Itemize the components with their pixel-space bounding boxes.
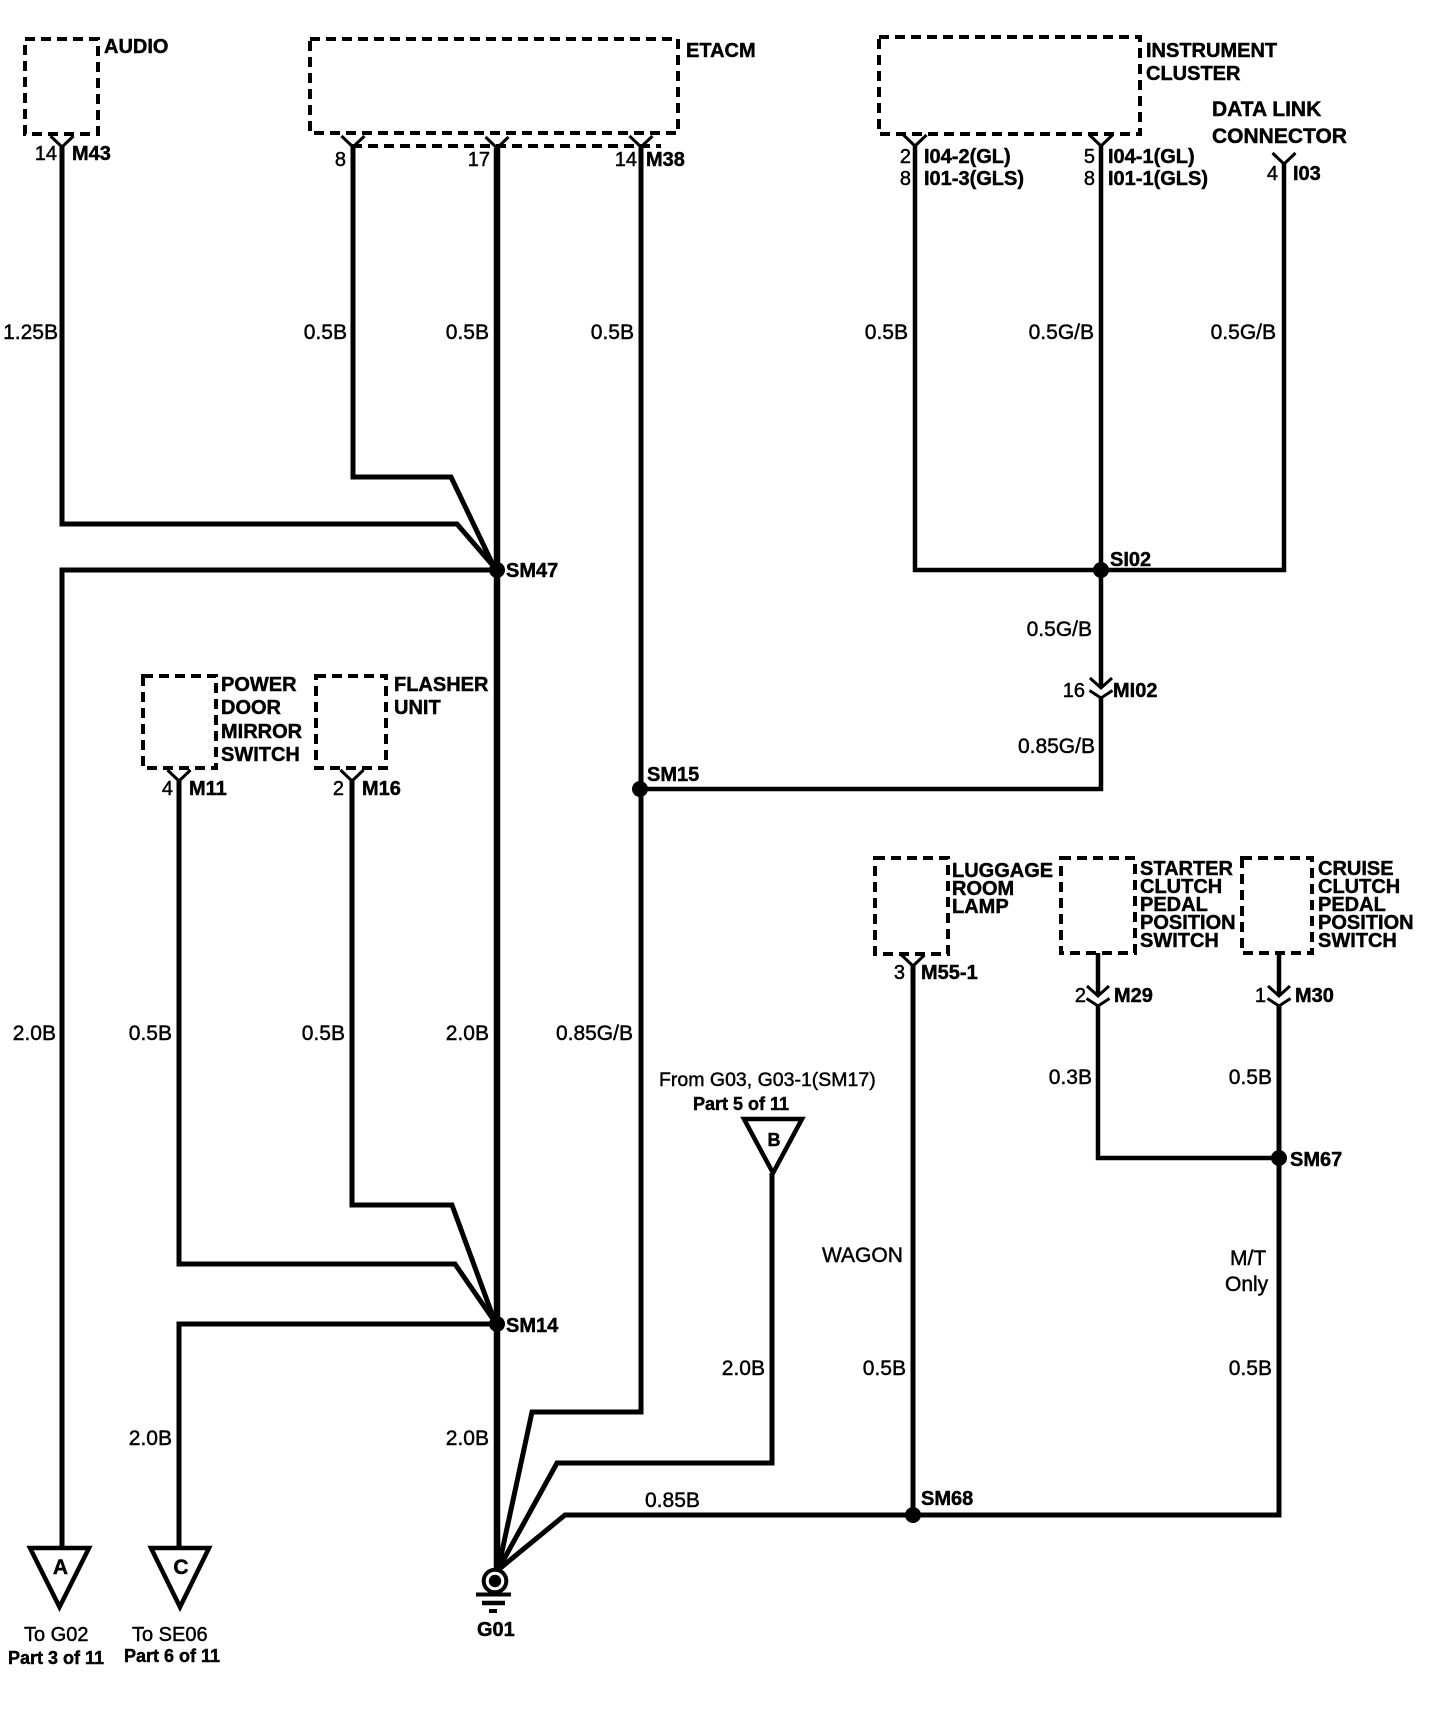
svg-text:SM15: SM15: [647, 764, 699, 786]
svg-text:8: 8: [335, 149, 346, 171]
svg-text:2.0B: 2.0B: [446, 1022, 489, 1045]
svg-text:0.5B: 0.5B: [865, 321, 908, 344]
svg-text:INSTRUMENT: INSTRUMENT: [1146, 40, 1277, 62]
svg-text:4: 4: [162, 778, 173, 800]
svg-text:0.5B: 0.5B: [304, 321, 347, 344]
svg-text:SWITCH: SWITCH: [221, 744, 300, 766]
svg-text:2: 2: [1075, 985, 1086, 1007]
svg-text:2.0B: 2.0B: [722, 1357, 765, 1380]
svg-text:1.25B: 1.25B: [3, 321, 58, 344]
svg-text:0.5B: 0.5B: [129, 1022, 172, 1045]
svg-text:SM68: SM68: [921, 1488, 973, 1510]
svg-text:Part 6 of 11: Part 6 of 11: [124, 1646, 220, 1666]
svg-text:I04-1(GL): I04-1(GL): [1108, 146, 1195, 168]
svg-text:ETACM: ETACM: [686, 40, 756, 62]
svg-text:2.0B: 2.0B: [446, 1427, 489, 1450]
svg-text:To G02: To G02: [24, 1624, 88, 1646]
svg-text:0.5B: 0.5B: [1229, 1066, 1272, 1089]
svg-text:0.85G/B: 0.85G/B: [1018, 735, 1095, 758]
svg-text:0.5G/B: 0.5G/B: [1027, 618, 1092, 641]
svg-text:DATA LINK: DATA LINK: [1212, 98, 1321, 121]
svg-text:I01-3(GLS): I01-3(GLS): [924, 168, 1024, 190]
svg-text:CLUSTER: CLUSTER: [1146, 63, 1241, 85]
svg-text:CONNECTOR: CONNECTOR: [1212, 125, 1347, 148]
svg-text:5: 5: [1084, 146, 1095, 168]
svg-text:1: 1: [1255, 985, 1266, 1007]
svg-text:2.0B: 2.0B: [13, 1022, 56, 1045]
svg-text:To SE06: To SE06: [132, 1624, 208, 1646]
svg-text:M55-1: M55-1: [921, 962, 978, 984]
svg-text:8: 8: [900, 168, 911, 190]
svg-text:M38: M38: [646, 149, 685, 171]
svg-text:M/T: M/T: [1230, 1247, 1266, 1270]
svg-text:17: 17: [468, 149, 490, 171]
svg-text:0.5B: 0.5B: [302, 1022, 345, 1045]
svg-text:FLASHER: FLASHER: [394, 674, 489, 696]
svg-text:14: 14: [615, 149, 637, 171]
svg-text:POWER: POWER: [221, 674, 297, 696]
svg-text:G01: G01: [477, 1619, 515, 1641]
svg-text:I03: I03: [1293, 163, 1321, 185]
svg-text:C: C: [173, 1556, 188, 1579]
svg-text:0.5G/B: 0.5G/B: [1029, 321, 1094, 344]
svg-text:14: 14: [35, 143, 57, 165]
svg-text:From G03, G03-1(SM17): From G03, G03-1(SM17): [659, 1069, 876, 1091]
svg-text:M43: M43: [72, 143, 111, 165]
svg-text:M30: M30: [1295, 985, 1334, 1007]
svg-text:M11: M11: [189, 778, 227, 800]
svg-text:I04-2(GL): I04-2(GL): [924, 146, 1011, 168]
svg-text:A: A: [53, 1556, 68, 1579]
svg-text:MIRROR: MIRROR: [221, 721, 303, 743]
svg-text:SM47: SM47: [506, 560, 558, 582]
svg-text:3: 3: [894, 962, 905, 984]
svg-text:M29: M29: [1114, 985, 1153, 1007]
svg-text:0.85B: 0.85B: [645, 1489, 700, 1512]
svg-text:DOOR: DOOR: [221, 697, 282, 719]
svg-text:UNIT: UNIT: [394, 697, 441, 719]
svg-text:Only: Only: [1225, 1273, 1269, 1296]
svg-text:Part 5 of 11: Part 5 of 11: [693, 1094, 789, 1114]
svg-text:8: 8: [1084, 168, 1095, 190]
svg-text:SWITCH: SWITCH: [1140, 930, 1219, 952]
svg-text:M16: M16: [362, 778, 401, 800]
svg-text:I01-1(GLS): I01-1(GLS): [1108, 168, 1208, 190]
svg-text:WAGON: WAGON: [822, 1244, 903, 1267]
svg-text:MI02: MI02: [1113, 680, 1157, 702]
svg-text:SI02: SI02: [1110, 549, 1151, 571]
svg-text:0.5B: 0.5B: [446, 321, 489, 344]
svg-text:2.0B: 2.0B: [129, 1427, 172, 1450]
svg-text:B: B: [768, 1130, 781, 1150]
svg-text:LAMP: LAMP: [952, 896, 1009, 918]
svg-text:4: 4: [1267, 163, 1278, 185]
svg-text:SWITCH: SWITCH: [1318, 930, 1397, 952]
svg-text:AUDIO: AUDIO: [104, 36, 168, 58]
svg-text:SM14: SM14: [506, 1315, 559, 1337]
svg-text:SM67: SM67: [1290, 1149, 1342, 1171]
svg-text:0.5B: 0.5B: [863, 1357, 906, 1380]
svg-text:Part 3 of 11: Part 3 of 11: [8, 1648, 104, 1668]
svg-text:2: 2: [900, 146, 911, 168]
svg-text:0.5B: 0.5B: [1229, 1357, 1272, 1380]
svg-text:2: 2: [333, 778, 344, 800]
svg-text:0.5G/B: 0.5G/B: [1211, 321, 1276, 344]
svg-text:0.5B: 0.5B: [591, 321, 634, 344]
svg-text:0.3B: 0.3B: [1049, 1066, 1092, 1089]
svg-text:0.85G/B: 0.85G/B: [556, 1022, 633, 1045]
svg-text:16: 16: [1063, 680, 1085, 702]
